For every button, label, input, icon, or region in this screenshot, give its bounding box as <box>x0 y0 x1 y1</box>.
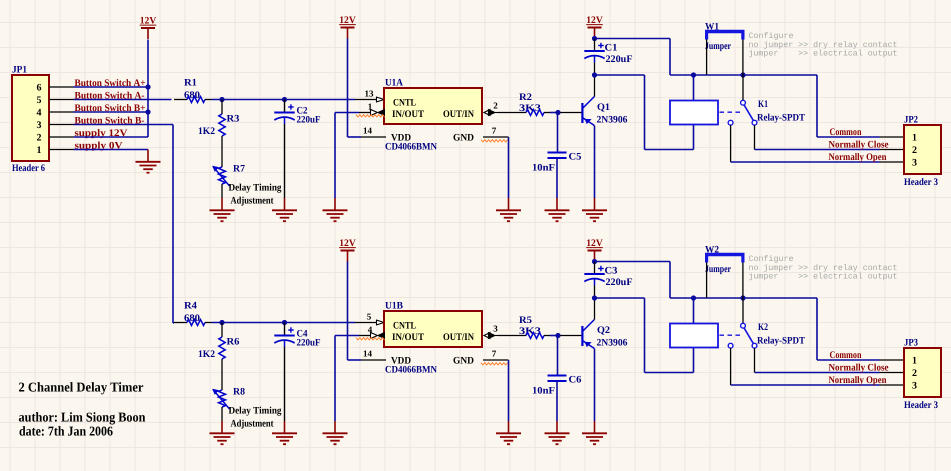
svg-text:Normally Close: Normally Close <box>829 363 889 374</box>
svg-text:2N3906: 2N3906 <box>597 338 628 349</box>
svg-text:5: 5 <box>367 312 372 322</box>
svg-text:1: 1 <box>37 145 42 156</box>
svg-text:6: 6 <box>37 83 42 94</box>
svg-text:13: 13 <box>365 89 375 99</box>
svg-text:1: 1 <box>912 133 917 144</box>
svg-text:Delay Timing: Delay Timing <box>229 406 282 417</box>
svg-text:2: 2 <box>912 368 917 379</box>
svg-text:R7: R7 <box>233 164 245 175</box>
svg-text:Normally Open: Normally Open <box>829 152 887 163</box>
svg-text:3: 3 <box>912 381 917 392</box>
svg-text:CNTL: CNTL <box>393 321 416 332</box>
svg-text:Relay-SPDT: Relay-SPDT <box>757 113 805 124</box>
svg-text:Configure: Configure <box>749 255 794 264</box>
svg-text:220uF: 220uF <box>606 277 633 288</box>
svg-text:1K2: 1K2 <box>198 126 215 137</box>
svg-text:220uF: 220uF <box>297 338 321 349</box>
svg-text:Jumper: Jumper <box>705 41 731 52</box>
svg-text:date: 7th Jan 2006: date: 7th Jan 2006 <box>19 424 113 439</box>
svg-text:C3: C3 <box>605 266 618 277</box>
svg-text:3: 3 <box>493 324 498 334</box>
svg-text:4: 4 <box>37 108 42 119</box>
svg-text:220uF: 220uF <box>606 54 633 65</box>
svg-text:R2: R2 <box>519 92 532 103</box>
svg-text:R5: R5 <box>519 315 532 326</box>
svg-text:3: 3 <box>912 158 917 169</box>
svg-text:2N3906: 2N3906 <box>597 115 628 126</box>
svg-text:14: 14 <box>363 349 373 359</box>
svg-text:Configure: Configure <box>749 32 794 41</box>
svg-text:R8: R8 <box>233 387 245 398</box>
svg-text:R4: R4 <box>184 301 197 312</box>
svg-text:Normally Close: Normally Close <box>829 140 889 151</box>
svg-text:C6: C6 <box>569 375 582 386</box>
svg-text:5: 5 <box>37 95 42 106</box>
svg-text:R1: R1 <box>184 78 197 89</box>
svg-text:2: 2 <box>37 133 42 144</box>
svg-text:7: 7 <box>492 349 497 359</box>
svg-text:Header 3: Header 3 <box>904 400 938 411</box>
svg-text:IN/OUT: IN/OUT <box>392 332 424 343</box>
svg-text:JP2: JP2 <box>904 115 918 126</box>
svg-text:10nF: 10nF <box>532 386 555 397</box>
svg-text:1: 1 <box>912 356 917 367</box>
svg-text:Header 3: Header 3 <box>904 177 938 188</box>
svg-text:R3: R3 <box>227 114 240 125</box>
svg-text:author: Lim Siong Boon: author: Lim Siong Boon <box>19 410 146 425</box>
svg-text:Header 6: Header 6 <box>12 163 45 174</box>
svg-text:U1A: U1A <box>385 78 404 89</box>
svg-text:GND: GND <box>453 133 474 144</box>
svg-text:Q2: Q2 <box>597 325 610 336</box>
svg-text:OUT/IN: OUT/IN <box>443 109 475 120</box>
svg-text:C5: C5 <box>569 152 582 163</box>
svg-text:Q1: Q1 <box>597 102 610 113</box>
svg-text:Delay Timing: Delay Timing <box>229 183 282 194</box>
svg-text:4: 4 <box>368 325 373 335</box>
svg-text:CNTL: CNTL <box>393 98 416 109</box>
svg-text:7: 7 <box>492 126 497 136</box>
svg-text:C1: C1 <box>605 43 618 54</box>
svg-text:2: 2 <box>912 145 917 156</box>
svg-text:JP3: JP3 <box>904 338 918 349</box>
svg-text:Normally Open: Normally Open <box>829 375 887 386</box>
svg-text:3: 3 <box>37 120 42 131</box>
svg-text:U1B: U1B <box>385 301 403 312</box>
svg-text:IN/OUT: IN/OUT <box>392 109 424 120</box>
svg-text:Adjustment: Adjustment <box>231 196 275 207</box>
svg-text:OUT/IN: OUT/IN <box>443 332 475 343</box>
svg-text:10nF: 10nF <box>532 163 555 174</box>
svg-text:Relay-SPDT: Relay-SPDT <box>757 336 805 347</box>
svg-text:JP1: JP1 <box>12 65 27 76</box>
svg-text:220uF: 220uF <box>297 115 321 126</box>
svg-text:CD4066BMN: CD4066BMN <box>385 142 438 153</box>
svg-text:Adjustment: Adjustment <box>231 419 275 430</box>
svg-text:2: 2 <box>493 101 498 111</box>
svg-text:R6: R6 <box>227 337 240 348</box>
svg-text:K1: K1 <box>758 99 768 110</box>
svg-text:K2: K2 <box>758 322 768 333</box>
svg-text:Common: Common <box>830 127 862 138</box>
svg-text:CD4066BMN: CD4066BMN <box>385 365 438 376</box>
svg-text:1K2: 1K2 <box>198 349 215 360</box>
svg-text:Jumper: Jumper <box>705 264 731 275</box>
svg-text:jumper >> electrical output: jumper >> electrical output <box>749 49 898 58</box>
svg-text:14: 14 <box>363 126 373 136</box>
svg-text:GND: GND <box>453 356 474 367</box>
svg-text:2 Channel Delay Timer: 2 Channel Delay Timer <box>19 380 144 395</box>
svg-text:jumper >> electrical output: jumper >> electrical output <box>749 272 898 281</box>
svg-text:Common: Common <box>830 350 862 361</box>
svg-text:1: 1 <box>368 102 373 112</box>
